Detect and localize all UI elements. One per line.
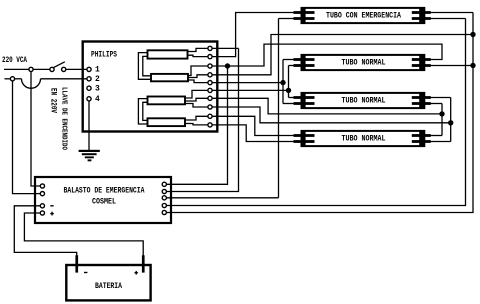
svg-text:EN 220V: EN 220V xyxy=(48,88,57,113)
svg-text:COSMEL: COSMEL xyxy=(92,196,116,206)
svg-text:LLAVE DE ENCENDIDO: LLAVE DE ENCENDIDO xyxy=(59,87,67,150)
svg-text:220 VCA: 220 VCA xyxy=(2,56,27,65)
svg-text:4: 4 xyxy=(95,95,100,104)
svg-text:TUBO CON EMERGENCIA: TUBO CON EMERGENCIA xyxy=(326,11,402,21)
svg-text:1: 1 xyxy=(95,66,100,75)
svg-text:TUBO NORMAL: TUBO NORMAL xyxy=(342,96,386,106)
svg-text:BATERIA: BATERIA xyxy=(95,281,123,291)
svg-text:TUBO NORMAL: TUBO NORMAL xyxy=(342,134,386,144)
svg-text:TUBO NORMAL: TUBO NORMAL xyxy=(342,58,386,68)
svg-text:PHILIPS: PHILIPS xyxy=(91,50,117,60)
svg-text:3: 3 xyxy=(95,85,100,94)
svg-text:BALASTO DE EMERGENCIA: BALASTO DE EMERGENCIA xyxy=(64,185,146,195)
svg-text:2: 2 xyxy=(95,75,100,84)
